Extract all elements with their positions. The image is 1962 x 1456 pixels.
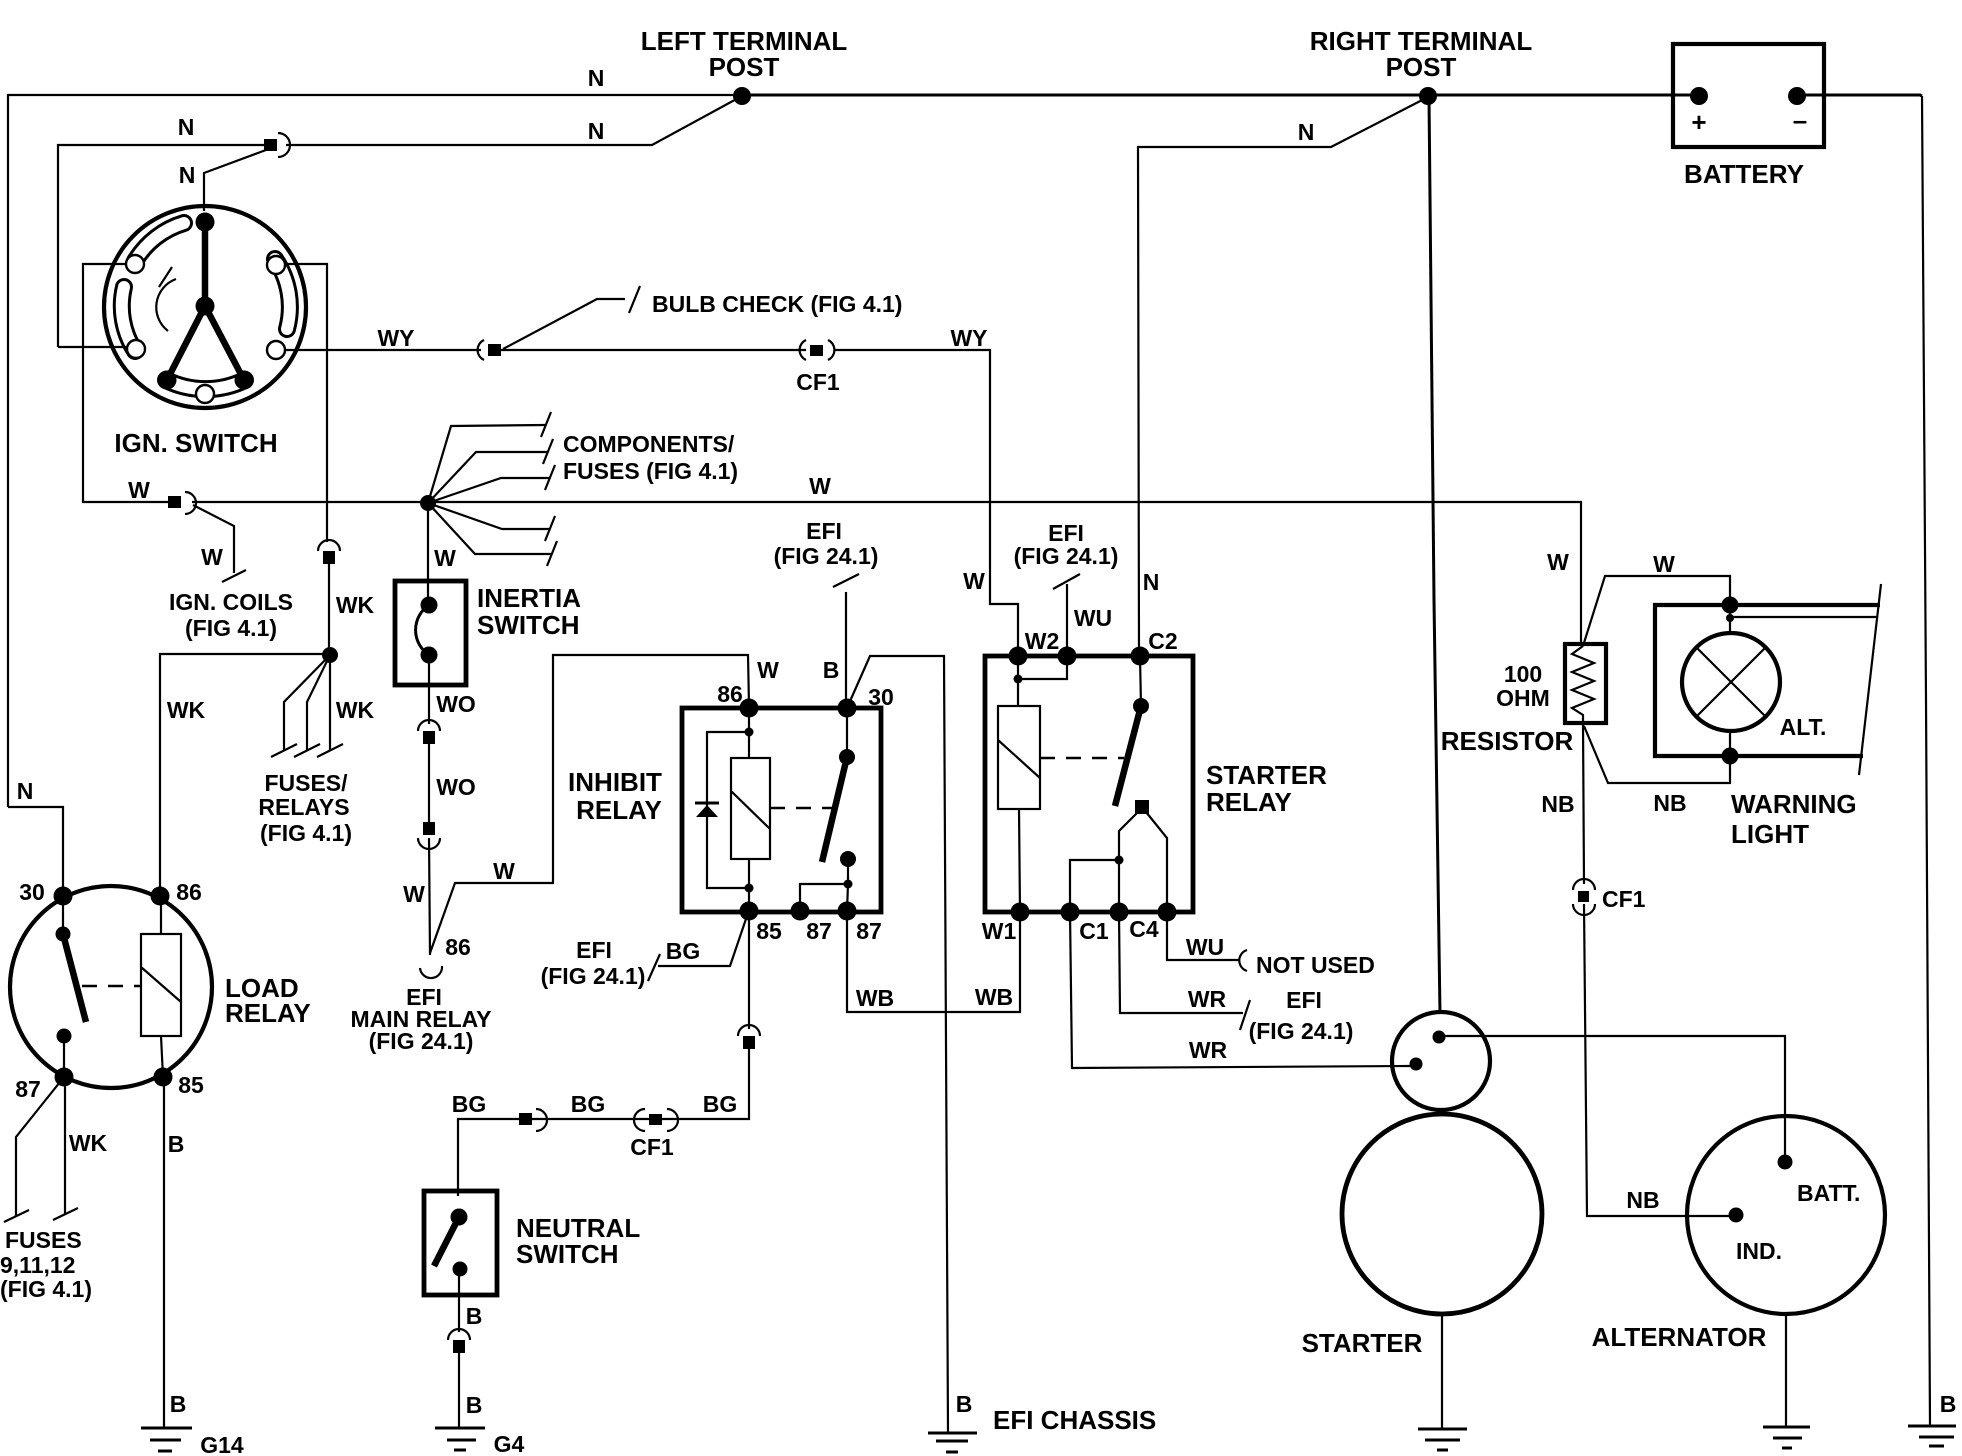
wire B below neutral switch — [458, 1269, 460, 1332]
svg-text:NB: NB — [1541, 791, 1574, 817]
node W fan junction — [420, 495, 436, 511]
svg-text:W: W — [757, 657, 779, 683]
svg-text:FUSES (FIG 4.1): FUSES (FIG 4.1) — [563, 458, 738, 484]
wire N post to battery positive (thick) — [742, 94, 1698, 97]
svg-text:W1: W1 — [982, 918, 1017, 944]
inhibit relay coil — [731, 758, 770, 859]
ground EFI CHASSIS — [928, 1432, 977, 1435]
svg-text:BG: BG — [571, 1091, 606, 1117]
ignition switch terminal holes — [126, 255, 285, 403]
load relay terminal 30 — [54, 887, 73, 906]
wire W main horizontal to resistor drop — [192, 502, 1581, 644]
svg-text:87: 87 — [806, 918, 832, 944]
ground G14 — [141, 1427, 192, 1430]
svg-text:(FIG 4.1): (FIG 4.1) — [260, 820, 352, 846]
inhibit relay actuation dashed link — [770, 807, 835, 809]
wire W branch to warning light — [1583, 576, 1730, 646]
load relay actuation dashed link — [82, 985, 141, 987]
svg-text:100: 100 — [1504, 661, 1542, 687]
svg-text:WK: WK — [336, 592, 375, 618]
svg-text:BULB CHECK (FIG 4.1): BULB CHECK (FIG 4.1) — [652, 291, 902, 317]
wire W fan branch 4 — [428, 503, 549, 529]
svg-text:SWITCH: SWITCH — [516, 1239, 619, 1269]
connector in W wire — [168, 496, 181, 508]
svg-text:W: W — [493, 858, 515, 884]
svg-text:IGN. COILS: IGN. COILS — [169, 589, 293, 615]
ignition switch contact slot lower-left — [122, 287, 135, 351]
node RIGHT TERMINAL POST — [1419, 87, 1437, 105]
inhibit relay terminal 85 — [740, 902, 759, 921]
starter relay actuation dashed link — [1040, 757, 1124, 759]
wire BG from inhibit 85 down — [748, 911, 750, 1029]
svg-text:N: N — [1298, 119, 1315, 145]
starter relay terminal C4 — [1158, 903, 1177, 922]
svg-text:B: B — [466, 1392, 483, 1418]
svg-text:NB: NB — [1653, 790, 1686, 816]
svg-text:BG: BG — [666, 938, 701, 964]
neutral switch S3 body — [424, 1191, 497, 1295]
solenoid terminal from post — [1433, 1031, 1446, 1044]
svg-text:86: 86 — [445, 934, 471, 960]
resistor R1 100 OHM — [1565, 644, 1606, 723]
neutral switch contacts — [451, 1209, 468, 1226]
wire WU from EFI fig24.1 to starter relay — [1066, 584, 1068, 656]
svg-text:IND.: IND. — [1736, 1238, 1782, 1264]
wire solenoid to alternator BATT — [1439, 1036, 1785, 1155]
connector in WK wire — [318, 540, 340, 551]
node LEFT TERMINAL POST — [733, 87, 751, 105]
wire N to load relay 30 — [8, 807, 63, 888]
svg-text:WB: WB — [975, 984, 1013, 1010]
starter relay terminal W2 — [1009, 647, 1028, 666]
svg-text:–: – — [1793, 105, 1807, 135]
wire WR from C1 to EFI fig24.1 — [1119, 912, 1243, 1013]
load relay terminal 85 — [154, 1068, 173, 1087]
ignition switch contact slot upper-left — [135, 223, 184, 261]
alternator terminal IND — [1729, 1208, 1744, 1223]
svg-text:WB: WB — [856, 985, 894, 1011]
svg-text:WK: WK — [336, 697, 375, 723]
inertia switch contacts — [421, 597, 438, 614]
wire WB from inhibit 30 to EFI chassis ground — [847, 656, 948, 1432]
wire WR to starter solenoid — [1070, 912, 1410, 1068]
svg-text:W: W — [809, 473, 831, 499]
inhibit relay terminal 87 centre — [791, 902, 810, 921]
svg-text:B: B — [1940, 1391, 1957, 1417]
svg-text:N: N — [17, 778, 34, 804]
svg-text:W2: W2 — [1025, 628, 1060, 654]
svg-text:WK: WK — [167, 697, 206, 723]
svg-text:RELAY: RELAY — [1206, 787, 1292, 817]
wire battery negative to right edge B — [1797, 95, 1922, 96]
svg-text:WR: WR — [1188, 986, 1227, 1012]
svg-text:RELAYS: RELAYS — [258, 794, 349, 820]
wire W fan branch 3 — [428, 478, 549, 503]
wire B from EFI fig24.1 to inhibit 30 — [845, 592, 847, 708]
svg-text:EFI: EFI — [1286, 987, 1322, 1013]
wire N top bus from left frame to left terminal post — [8, 95, 742, 807]
fig-cut slash at warning light feed — [1859, 584, 1881, 775]
wire N from right post to starter-relay C2 — [1138, 97, 1428, 656]
svg-text:W: W — [128, 477, 150, 503]
svg-text:NOT USED: NOT USED — [1256, 952, 1375, 978]
load relay terminal 86 — [151, 887, 170, 906]
svg-text:NB: NB — [1626, 1187, 1659, 1213]
inhibit relay terminal 86 — [740, 699, 759, 718]
svg-text:STARTER: STARTER — [1302, 1328, 1423, 1358]
wire WY from ign switch lower-right terminal — [285, 349, 481, 351]
svg-text:N: N — [1143, 569, 1160, 595]
wire WY continues to CF1 — [501, 349, 806, 351]
wire alternator to ground — [1785, 1314, 1787, 1427]
wire starter to ground — [1441, 1314, 1443, 1429]
svg-text:C1: C1 — [1079, 918, 1109, 944]
svg-text:ALT.: ALT. — [1780, 714, 1827, 740]
svg-text:(FIG 24.1): (FIG 24.1) — [541, 963, 646, 989]
svg-text:87: 87 — [856, 918, 882, 944]
svg-text:C4: C4 — [1129, 916, 1159, 942]
svg-text:STARTER: STARTER — [1206, 760, 1327, 790]
starter relay K3 body — [985, 656, 1193, 912]
wire WK fuse branch 1 — [284, 655, 330, 750]
warning light bracket frame — [1655, 605, 1880, 756]
svg-text:9,11,12: 9,11,12 — [0, 1252, 75, 1278]
starter relay terminal C1 feed — [1061, 903, 1080, 922]
svg-text:WK: WK — [69, 1130, 108, 1156]
wire WO below inertia switch — [428, 655, 430, 724]
svg-text:WARNING: WARNING — [1731, 789, 1857, 819]
svg-text:LIGHT: LIGHT — [1731, 819, 1809, 849]
svg-text:INERTIA: INERTIA — [477, 583, 581, 613]
wire WB from inhibit 87 to W1 bus — [847, 911, 1020, 1012]
wire W fan branch 5 — [428, 503, 551, 554]
svg-text:EFI: EFI — [576, 937, 612, 963]
ground B bottom right — [1908, 1425, 1956, 1428]
svg-text:EFI: EFI — [806, 518, 842, 544]
svg-text:COMPONENTS/: COMPONENTS/ — [563, 431, 735, 457]
ignition switch contact slot right — [275, 259, 290, 329]
connector CF1 in WY wire — [800, 340, 806, 360]
svg-text:N: N — [588, 65, 605, 91]
svg-text:(FIG 24.1): (FIG 24.1) — [774, 543, 879, 569]
connector in BG wire — [738, 1025, 760, 1036]
svg-text:(FIG 24.1): (FIG 24.1) — [1014, 543, 1119, 569]
wire WK from load relay 87 to fuses — [16, 1077, 64, 1216]
wire from right post down to starter solenoid — [1429, 97, 1440, 1014]
svg-text:EFI CHASSIS: EFI CHASSIS — [993, 1405, 1156, 1435]
wire W fan branch 2 — [428, 452, 547, 503]
svg-text:86: 86 — [717, 681, 743, 707]
diode D1 across inhibit coil — [707, 732, 749, 888]
leader EFI BG to inhibit 85 — [658, 913, 748, 966]
ground alternator — [1763, 1426, 1810, 1429]
rotor arm end dots over band — [158, 371, 177, 390]
wire WK from ign switch upper-right terminal — [285, 264, 327, 542]
svg-text:(FIG 4.1): (FIG 4.1) — [185, 615, 277, 641]
svg-text:87: 87 — [15, 1076, 41, 1102]
ignition switch bottom contact band — [166, 380, 245, 389]
ground G4 — [435, 1427, 485, 1430]
node warning light top junction — [1722, 597, 1739, 614]
wire W fan branch 1 to components/fuses — [428, 425, 545, 503]
node warning light bottom junction — [1722, 748, 1739, 765]
alternator terminal BATT — [1778, 1155, 1793, 1170]
svg-text:B: B — [823, 657, 840, 683]
svg-text:RESISTOR: RESISTOR — [1441, 726, 1574, 756]
svg-text:WY: WY — [377, 325, 414, 351]
inertia switch S2 body — [395, 581, 466, 685]
ignition switch S1 body — [104, 206, 306, 408]
wire N ignition-switch branch with in-line connector — [58, 145, 264, 347]
svg-text:OHM: OHM — [1496, 685, 1550, 711]
svg-text:INHIBIT: INHIBIT — [568, 767, 662, 797]
solenoid terminal WR — [1410, 1058, 1423, 1071]
node WK junction — [322, 647, 338, 663]
svg-text:W: W — [434, 545, 456, 571]
wire WK fuse branch 3 — [329, 655, 331, 750]
svg-text:85: 85 — [178, 1072, 204, 1098]
svg-text:(FIG 24.1): (FIG 24.1) — [369, 1028, 474, 1054]
load relay K1 body — [10, 886, 212, 1088]
starter M1 body — [1342, 1114, 1542, 1314]
connector in WO wire lower — [423, 822, 435, 835]
starter relay terminal C1 — [1110, 903, 1129, 922]
svg-text:30: 30 — [19, 879, 45, 905]
wire N loop to ign switch lower-left terminal — [58, 346, 127, 348]
svg-text:WY: WY — [950, 325, 987, 351]
connector in WY wire — [478, 340, 484, 360]
svg-text:B: B — [956, 1391, 973, 1417]
svg-text:W: W — [201, 544, 223, 570]
svg-text:RELAY: RELAY — [225, 998, 311, 1028]
starter relay terminal C2 — [1131, 647, 1150, 666]
wire NB from CF1 to alternator IND — [1584, 904, 1729, 1216]
wire W from ign switch upper-left terminal — [83, 264, 171, 502]
wire W down to inertia switch — [427, 503, 429, 610]
ground starter — [1418, 1428, 1467, 1431]
connector in B wire — [448, 1329, 470, 1340]
wire WY to starter relay W2 — [834, 350, 1018, 656]
svg-text:(FIG 4.1): (FIG 4.1) — [0, 1276, 92, 1302]
load relay terminal 87 — [55, 1068, 74, 1087]
svg-text:WU: WU — [1074, 605, 1112, 631]
svg-text:POST: POST — [1386, 52, 1457, 82]
warning light L1 bulb — [1682, 633, 1780, 731]
svg-text:CF1: CF1 — [796, 369, 840, 395]
starter relay terminal W1 — [1011, 903, 1030, 922]
socket 86 to EFI main relay — [420, 966, 442, 978]
inhibit relay terminal 30 — [838, 699, 857, 718]
inhibit relay switch arm — [846, 708, 848, 757]
svg-text:ALTERNATOR: ALTERNATOR — [1592, 1322, 1767, 1352]
svg-text:FUSES: FUSES — [5, 1227, 82, 1253]
svg-text:BATTERY: BATTERY — [1684, 159, 1804, 189]
svg-text:RELAY: RELAY — [576, 795, 662, 825]
svg-text:C2: C2 — [1148, 628, 1177, 654]
svg-text:IGN. SWITCH: IGN. SWITCH — [114, 428, 277, 458]
svg-text:BG: BG — [452, 1091, 487, 1117]
wire NB warning light return to resistor — [1584, 726, 1730, 783]
load relay switch arm — [56, 927, 71, 942]
ignition switch rotation arrow — [156, 279, 176, 331]
svg-text:WO: WO — [436, 774, 476, 800]
alternator G1 body — [1687, 1116, 1885, 1314]
connector CF1 in NB wire — [1573, 879, 1595, 890]
svg-text:30: 30 — [868, 684, 894, 710]
svg-text:G14: G14 — [200, 1432, 244, 1456]
wire W branch to inhibit relay 86 — [430, 655, 749, 953]
starter relay coil — [998, 706, 1040, 809]
wire B from load relay 85 to G14 — [163, 1077, 165, 1428]
svg-text:CF1: CF1 — [630, 1134, 674, 1160]
load relay coil — [141, 934, 181, 1036]
svg-text:+: + — [1691, 107, 1706, 137]
svg-text:SWITCH: SWITCH — [477, 610, 580, 640]
svg-text:W: W — [1653, 551, 1675, 577]
connector CF1 in BG run — [634, 1109, 645, 1131]
svg-text:86: 86 — [176, 879, 202, 905]
wire WK fuse branch 2 — [307, 655, 330, 750]
svg-text:CF1: CF1 — [1602, 886, 1646, 912]
svg-text:WO: WO — [436, 691, 476, 717]
svg-text:W: W — [403, 881, 425, 907]
leader to BULB CHECK — [503, 299, 625, 349]
wire WK to load relay 86 — [160, 654, 330, 888]
svg-text:WU: WU — [1186, 934, 1224, 960]
wire NB from resistor to CF1 — [1583, 722, 1584, 884]
svg-text:FUSES/: FUSES/ — [264, 770, 348, 796]
connector in WO wire — [418, 720, 440, 731]
starter solenoid body — [1392, 1012, 1490, 1110]
svg-text:B: B — [168, 1131, 185, 1157]
svg-text:G4: G4 — [494, 1431, 525, 1456]
svg-text:N: N — [588, 118, 605, 144]
inhibit relay terminal 87 right — [838, 902, 857, 921]
svg-text:85: 85 — [756, 918, 782, 944]
svg-text:B: B — [466, 1303, 483, 1329]
svg-text:(FIG 24.1): (FIG 24.1) — [1249, 1018, 1354, 1044]
svg-text:W: W — [963, 568, 985, 594]
starter relay terminal WU — [1058, 647, 1077, 666]
svg-text:N: N — [178, 114, 195, 140]
svg-text:BG: BG — [703, 1091, 738, 1117]
inhibit relay K2 body — [682, 708, 881, 912]
svg-text:N: N — [179, 162, 196, 188]
svg-text:W: W — [1547, 549, 1569, 575]
connector in BG run — [519, 1113, 532, 1125]
svg-text:POST: POST — [709, 52, 780, 82]
svg-text:B: B — [170, 1391, 187, 1417]
leader to IGN. COILS — [193, 505, 234, 573]
svg-text:BATT.: BATT. — [1797, 1180, 1860, 1206]
battery B1 — [1673, 44, 1824, 147]
wire WU from C4 to NOT USED — [1167, 912, 1240, 960]
svg-text:WR: WR — [1189, 1037, 1228, 1063]
ignition switch rotor — [196, 297, 215, 316]
starter relay switch arm — [1140, 656, 1141, 706]
